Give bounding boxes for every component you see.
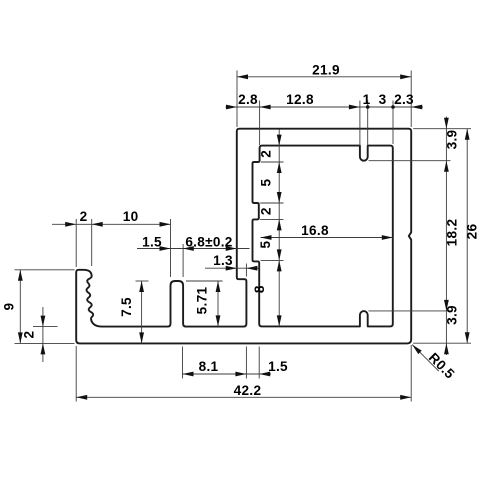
svg-text:8: 8 <box>252 285 267 293</box>
svg-text:12.8: 12.8 <box>286 92 314 107</box>
svg-text:3: 3 <box>379 92 387 107</box>
svg-text:1.5: 1.5 <box>142 234 162 249</box>
svg-text:2: 2 <box>80 209 88 224</box>
svg-text:5: 5 <box>258 241 273 249</box>
svg-text:1.3: 1.3 <box>213 253 233 268</box>
svg-text:16.8: 16.8 <box>301 223 329 238</box>
svg-text:5.71: 5.71 <box>195 287 210 315</box>
svg-text:3.9: 3.9 <box>445 305 460 325</box>
svg-text:42.2: 42.2 <box>234 383 262 398</box>
svg-text:8.1: 8.1 <box>199 359 219 374</box>
svg-text:2.8: 2.8 <box>238 92 258 107</box>
svg-text:10: 10 <box>123 209 139 224</box>
svg-text:9: 9 <box>2 302 17 310</box>
svg-text:26: 26 <box>465 224 480 240</box>
svg-text:5: 5 <box>259 178 274 186</box>
svg-text:2: 2 <box>259 150 274 158</box>
svg-text:2: 2 <box>22 330 37 338</box>
svg-text:2.3: 2.3 <box>394 92 414 107</box>
svg-text:1: 1 <box>363 92 371 107</box>
svg-text:2: 2 <box>259 207 274 215</box>
svg-text:7.5: 7.5 <box>119 297 134 317</box>
svg-text:6.8±0.2: 6.8±0.2 <box>185 234 232 249</box>
svg-text:3.9: 3.9 <box>445 129 460 149</box>
svg-text:1.5: 1.5 <box>268 359 288 374</box>
svg-text:21.9: 21.9 <box>312 63 340 78</box>
svg-text:18.2: 18.2 <box>445 219 460 247</box>
